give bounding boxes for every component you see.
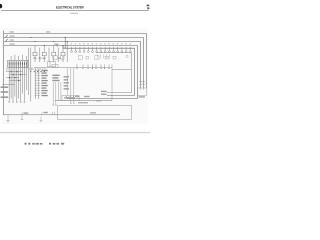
junction dots on harness: [9, 71, 21, 81]
connector CN1 pin contacts: [9, 63, 27, 65]
mid distribution box: [52, 64, 58, 67]
connector CN1 pins: [9, 61, 26, 67]
label subtitle under header rule: [70, 13, 78, 14]
wire bus L5: [63, 48, 134, 95]
wire bus L1: [4, 33, 147, 88]
ground G3 base: [40, 120, 43, 121]
relay box lower: [58, 105, 132, 119]
battery B1 (right component): [137, 81, 146, 96]
relay lead stub long: [29, 48, 31, 102]
node ticks on L4 wrap left end: [66, 96, 68, 99]
indicator circle on lead: [39, 57, 41, 59]
stub ticks left of CN1: [7, 68, 8, 71]
wire bus L2: [4, 38, 144, 88]
fuse box FB right edge inner: [111, 68, 113, 101]
label fuse row names: [71, 43, 131, 44]
label over W3 wrap: [75, 96, 90, 97]
wire pair from FB: [67, 68, 74, 104]
switch S2 on bus L3: [6, 39, 8, 42]
wire junction row A: [6, 71, 23, 73]
fuse output ticks along FB bottom: [77, 64, 112, 67]
fuse output dots: [77, 67, 110, 70]
wire left vertical bus: [3, 31, 5, 116]
label bus names: [10, 31, 59, 44]
wire ground feeder: [2, 84, 14, 86]
fuse box FB right section: [96, 53, 131, 93]
page tab marker (black blob, left edge of header): [0, 4, 2, 8]
node stub N2: [41, 112, 43, 114]
lamp symbol: [30, 68, 32, 70]
wire bottom rail: [4, 114, 120, 116]
wire junction row D: [9, 79, 20, 81]
fuse row second rank: [98, 54, 110, 58]
switch S1 on bus L2: [6, 35, 8, 38]
wire harness end ticks: [8, 102, 25, 103]
label TS1 row names: [41, 70, 47, 96]
terminal strip TS1 ticks: [34, 71, 40, 96]
label inside M1: [64, 97, 75, 99]
junction dots row: [30, 71, 45, 72]
terminal strip TS1 rails: [36, 69, 39, 99]
component top-corner mark: [126, 55, 128, 57]
header rule: [1, 9, 149, 11]
wire jog L4 to L5: [62, 46, 64, 49]
footer toolbar marks: [25, 143, 65, 145]
wire mid pair with connector ends: [52, 82, 61, 106]
wire drop L2 to L5: [64, 38, 66, 49]
relay K5: [66, 42, 68, 63]
label over W1 wrap: [101, 91, 107, 92]
label on rail inside lower box: [90, 112, 96, 113]
label rows beside pair: [64, 76, 69, 89]
node rail ticks under mid pair: [52, 112, 55, 115]
wire bus L3: [4, 42, 141, 88]
header page number (right edge): [147, 5, 150, 7]
relay K3: [49, 46, 56, 62]
wire junction row B: [9, 74, 26, 76]
junction dots on bus: [30, 37, 67, 46]
label margin notes: [1, 86, 9, 98]
diode module box: [48, 62, 56, 67]
fuse row F1..Fn: [71, 47, 132, 53]
page bottom separator: [0, 132, 150, 133]
label column mid-left: [52, 75, 59, 82]
label over W2 wrap: [101, 94, 107, 95]
junction tick row under fuse box: [31, 68, 46, 70]
label under L5 wrap: [96, 100, 101, 101]
node stub N1: [21, 112, 23, 114]
wire bus L4: [4, 46, 138, 99]
module M1 box: [62, 95, 79, 100]
wire junction row C: [6, 77, 19, 79]
label under B1: [139, 96, 145, 97]
relay K1: [31, 46, 37, 62]
label relay names: [33, 58, 61, 59]
svg-text:ELECTRICAL SYSTEM: ELECTRICAL SYSTEM: [56, 6, 84, 10]
relay K2: [40, 46, 46, 62]
scan paper tint: [2, 28, 148, 124]
label above lower box: [78, 102, 88, 103]
ground G1 under rail: [6, 115, 9, 122]
wire lower bus: [55, 100, 112, 102]
relay K4: [58, 46, 65, 62]
connector CN1 body: [8, 60, 28, 67]
wire harness below CN1: [9, 68, 26, 102]
wire leads above CN1: [11, 55, 26, 61]
label above bottom rail: [23, 112, 47, 114]
fuse blip on L4: [56, 45, 58, 47]
fuse sub-boxes: [53, 56, 116, 59]
stub below rail S-a: [40, 116, 42, 120]
fuse box FB outline bottom: [34, 67, 112, 69]
ground G2 under rail: [21, 115, 24, 120]
